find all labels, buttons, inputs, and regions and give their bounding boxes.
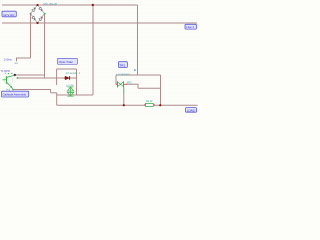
svg-text:MT2: MT2 (127, 81, 132, 84)
svg-text:Cathode Assembly: Cathode Assembly (3, 93, 27, 97)
junction node collector (14, 74, 16, 76)
wire gate jog (127, 84, 139, 88)
svg-text:GBL 4W-08: GBL 4W-08 (43, 2, 57, 6)
svg-text:12 V AC: 12 V AC (3, 13, 15, 17)
label box Opto Triac (57, 58, 77, 64)
label box Live (185, 24, 197, 29)
wire LED cathode (70, 77, 77, 79)
transistor emitter pin dot (12, 89, 14, 91)
label box 12 V AC (2, 11, 16, 17)
wire top rail (2, 4, 138, 6)
wire collector row (15, 74, 45, 76)
diode D1 top-left (32, 8, 36, 12)
svg-text:TR1: TR1 (119, 63, 125, 67)
wire bridge left output down (30, 14, 32, 58)
wire right vertical to bottom rail (160, 75, 162, 105)
wire long vertical from top rail (92, 5, 94, 95)
junction node triac to rail (123, 104, 125, 106)
bridge rectifier diamond (31, 5, 45, 23)
label box Cathode Assembly (2, 91, 29, 97)
junction node bridge top (36, 4, 38, 6)
label box LOAD (186, 108, 197, 113)
svg-text:Opto Triac: Opto Triac (59, 60, 74, 64)
triac TR1 (118, 81, 124, 94)
triac MT pin stubs (116, 83, 127, 85)
wire triac MT2 corner down (115, 75, 117, 84)
LED D5 (64, 76, 70, 80)
label box TR1 (118, 62, 127, 68)
svg-text:⧈1: ⧈1 (15, 61, 19, 65)
wire opto left leg (56, 69, 58, 85)
junction node bridge bottom (36, 22, 38, 24)
wire bridge right output down (44, 14, 46, 78)
svg-text:R1 1k: R1 1k (146, 100, 153, 103)
wire bottom rail (57, 104, 198, 106)
wire opto right leg (76, 69, 78, 95)
wire triac MT2 row (116, 74, 161, 76)
diode D4 bottom-right (39, 17, 43, 21)
wire emitter corner down (50, 90, 52, 93)
pin speck marks (5, 73, 6, 74)
wire top rail down to triac (137, 5, 139, 75)
wire down to bottom rail (56, 93, 58, 105)
bridge right pin (44, 13, 46, 15)
wire emitter row (13, 89, 51, 91)
diode D2 top-right (39, 7, 43, 11)
bridge left pin (30, 13, 32, 15)
transistor Q1 (3, 75, 15, 89)
svg-text:1 k0hm .: 1 k0hm . (4, 59, 14, 62)
diode D3 bottom-left (32, 16, 36, 20)
wire gate row (138, 87, 161, 89)
LED anode pin dot (17, 77, 19, 79)
svg-text:Live 1: Live 1 (186, 25, 194, 29)
wire triac down to rail (123, 94, 125, 105)
svg-text:L2 240VAC: L2 240VAC (117, 73, 131, 77)
opto triac output device (67, 87, 73, 97)
junction node right bottom (159, 104, 161, 106)
wire opto top edge (57, 68, 77, 70)
resistor R1 (144, 103, 155, 106)
triac top pin dot (134, 69, 136, 71)
junction node top rail mid (92, 4, 94, 6)
svg-text:LOAD: LOAD (187, 108, 195, 112)
wire second rail (2, 22, 197, 24)
wire emitter jog right (51, 92, 57, 94)
svg-text:pin anode: 1: pin anode: 1 (66, 71, 81, 75)
wire mid return row (57, 94, 93, 96)
svg-text:T1 NPN: T1 NPN (1, 69, 10, 73)
wire jog to pin (17, 58, 31, 61)
wire LED anode row (17, 77, 65, 79)
